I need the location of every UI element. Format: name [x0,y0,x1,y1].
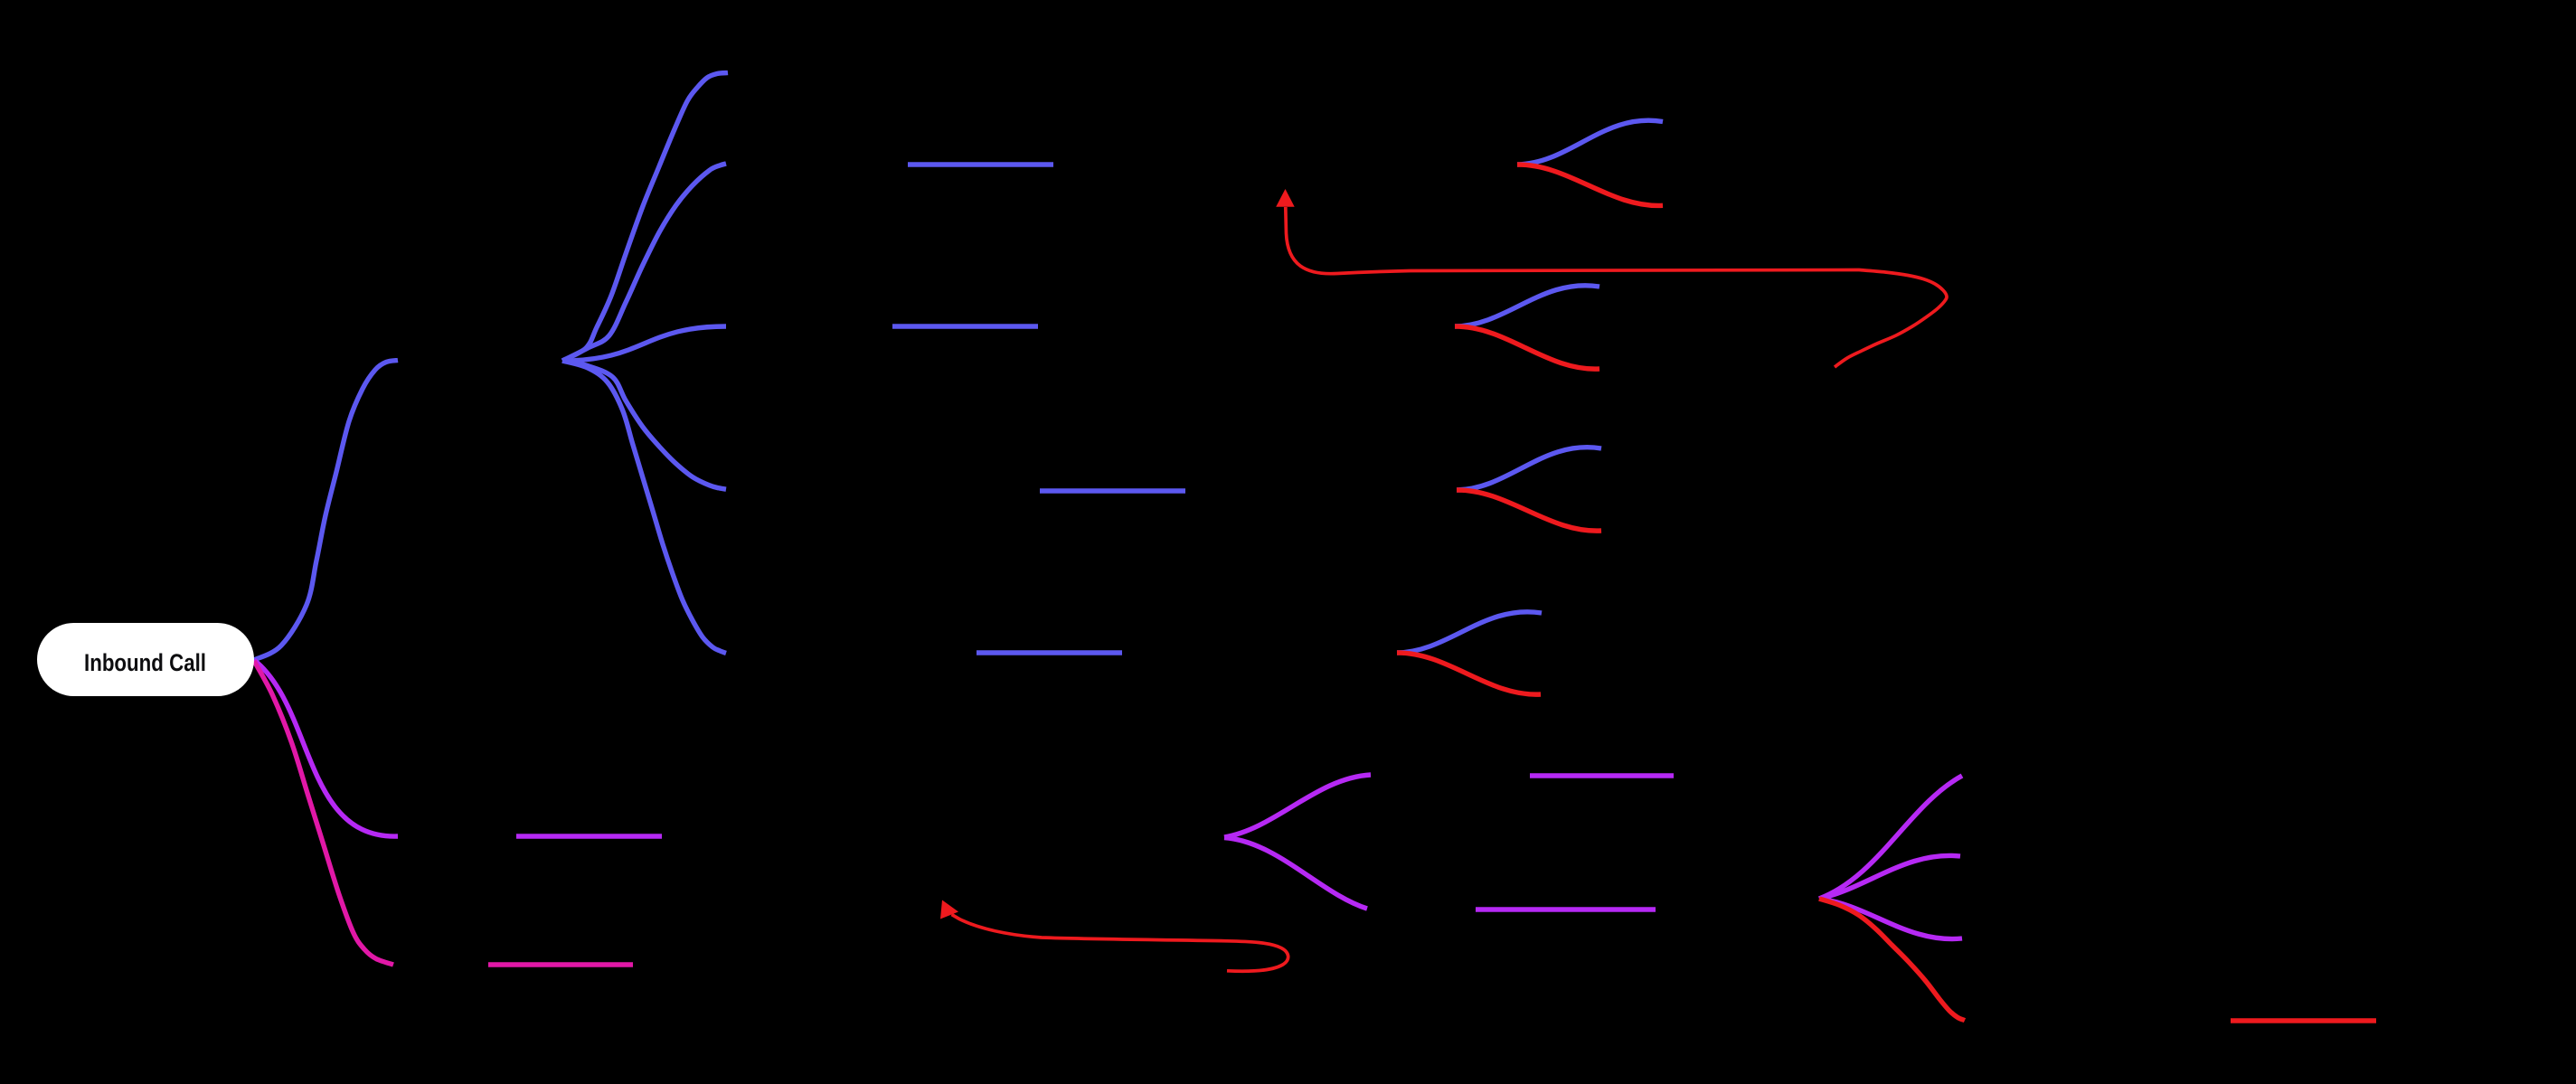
svg-text:Inbound Call: Inbound Call [84,649,206,676]
purple fork lower branch [1224,838,1367,910]
arrowhead top [1276,189,1295,207]
purple fork upper branch [1224,775,1371,837]
fork y542 red branch [1457,490,1601,531]
annotation arrow top: loop from lower-right node pointing up [1286,207,1947,367]
link root to level1 hub [254,361,398,661]
link level3 row y543 [1040,488,1185,493]
link purple level2 row y925 [516,834,662,838]
magenta link row y1067 [488,962,633,966]
purple fan branch 1 [1819,776,1962,899]
fork y361 blue branch [1455,286,1599,326]
fork y182 red branch [1517,165,1663,205]
link root to magenta level1 [254,661,393,965]
fork y722 blue branch [1397,612,1542,653]
link level3 row y182 [908,162,1053,166]
fork y182 blue branch [1517,120,1663,165]
link hub to child row y361 [562,326,726,361]
link hub to child row y722 [562,361,726,653]
fork y722 red branch [1397,653,1541,694]
purple link row y1006 [1476,907,1656,911]
purple fan red branch [1819,899,1965,1021]
link level3 row y361 [892,324,1038,328]
fork y361 red branch [1455,326,1599,369]
purple link row y858 [1530,773,1674,778]
red link bottom right [2231,1018,2376,1023]
fork y542 blue branch [1457,448,1601,490]
annotation arrow bottom: loop pointing left [952,915,1288,972]
link hub to child row y181 [562,164,726,361]
arrowhead bottom [940,900,958,919]
purple fan branch 3 [1819,899,1962,939]
link hub to child row y541 [562,361,726,489]
link root to purple level1 [254,660,398,836]
link hub to child row y80 [562,73,728,362]
purple fan branch 2 [1819,855,1960,899]
link level3 row y722 [977,650,1122,655]
root node Inbound Call [37,623,254,696]
